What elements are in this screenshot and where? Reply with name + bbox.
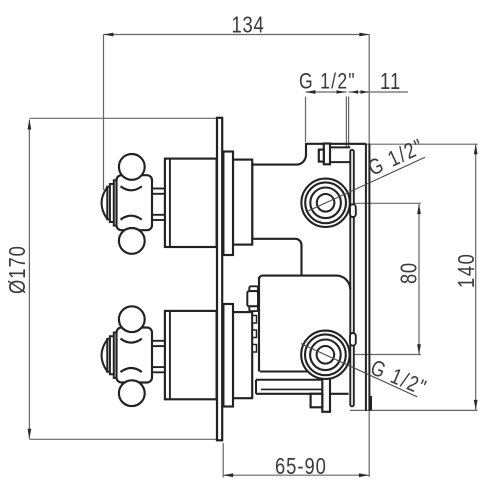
dimension 11 line: [349, 91, 409, 93]
valve body top: left and bottom outline: [252, 162, 301, 274]
nut on left of bottom body: [249, 286, 258, 291]
dome skirt ring middle step: [110, 184, 114, 222]
wire: extension line left of dim 134: [103, 35, 105, 191]
hidden elbow edge behind wall at bottom port: [370, 396, 372, 411]
leader line G 1/2 bottom port: [301, 344, 417, 397]
socket arc lower: [121, 368, 142, 372]
dimension D170 line: [28, 120, 30, 439]
ball bottom of top handle: [119, 228, 145, 254]
dimension 80 line: [418, 204, 420, 354]
valve body bottom: top edge with round corner to bar: [259, 276, 350, 290]
dimension G 1/2 top line: [306, 91, 347, 93]
svg-text:Ø170: Ø170: [5, 245, 30, 294]
valve body bottom: bottom edge: [256, 393, 349, 395]
stub pipe below bottom port: [322, 377, 330, 412]
dome front arc: [102, 187, 108, 219]
dome skirt ring outer step: [114, 180, 117, 225]
dome skirt ring inner step: [107, 187, 110, 220]
valve body bottom: lower steps: [260, 371, 322, 373]
stem bars bottom handle: [151, 341, 166, 346]
wall plate: [217, 118, 222, 441]
wire: right extension line (wall plane, full height): [368, 35, 370, 478]
cartridge block bottom valve: [233, 312, 252, 398]
wire: extension lines of D170: [29, 117, 216, 119]
ball bottom of bottom handle: [119, 380, 145, 406]
socket arc lower: [121, 216, 142, 220]
fitting collar top port: [319, 150, 324, 162]
svg-text:G 1/2": G 1/2": [299, 70, 356, 94]
ball top of top handle: [119, 154, 145, 180]
dimension 140 line: [475, 144, 477, 410]
flange bottom valve: [223, 304, 233, 407]
fitting nut top port: [324, 144, 330, 165]
handle assembly bottom: [102, 306, 217, 406]
valve body top: shoulder, neck and top edge: [252, 144, 366, 165]
valve body bottom: left edge: [258, 277, 260, 372]
flange top valve: [223, 152, 233, 256]
leader line G 1/2 top port: [309, 157, 426, 211]
dimension 134 line: [104, 34, 370, 36]
trim sleeve top handle: [165, 159, 217, 247]
svg-text:140: 140: [454, 253, 479, 288]
dome skirt ring middle step: [110, 336, 114, 374]
dimension 65-90 line: [223, 474, 369, 476]
nub on bar at top port: [350, 204, 356, 217]
cartridge block top valve: [233, 160, 252, 245]
spline ticks on cartridge bottom valve: [252, 316, 256, 324]
wire: extension lines of top G 1/2 dim: [305, 97, 307, 143]
svg-text:65-90: 65-90: [275, 454, 327, 479]
hub bottom handle: [117, 328, 153, 383]
wire: extension lines of 140: [350, 143, 478, 145]
fitting tube top port: [330, 146, 350, 148]
svg-text:80: 80: [397, 262, 422, 284]
wire: left extension line of 65-90: [222, 443, 224, 478]
svg-text:134: 134: [232, 13, 265, 38]
dome skirt ring outer step: [114, 333, 117, 378]
dome skirt ring inner step: [107, 339, 110, 372]
dome front arc: [102, 339, 108, 371]
handle assembly top: [102, 154, 217, 254]
svg-text:11: 11: [380, 69, 401, 94]
ball top of bottom handle: [119, 306, 145, 332]
mounting bar: [350, 150, 354, 407]
wire: extension lines of 80: [355, 202, 421, 204]
socket arc upper: [121, 339, 142, 343]
wall line back pair: [365, 144, 367, 411]
port top circles: [301, 179, 349, 227]
trim sleeve bottom handle: [165, 311, 217, 399]
stem bars top handle: [151, 189, 166, 194]
port bottom circles: [301, 331, 349, 379]
step line above bottom edge: [261, 388, 322, 390]
hub top handle: [117, 175, 153, 230]
stub nut below bottom port: [311, 394, 323, 408]
nub on bar at bottom port: [350, 333, 356, 346]
socket arc upper: [121, 186, 142, 190]
